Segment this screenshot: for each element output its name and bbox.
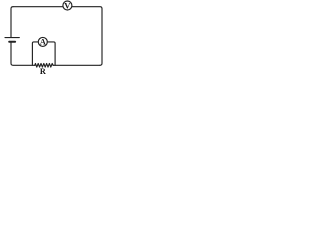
voltmeter V1 circle (63, 1, 72, 10)
battery B1 short plate (9, 41, 15, 43)
wire bottom right segment (54, 64, 100, 66)
svg-text:A: A (40, 38, 46, 47)
wire right side (100, 9, 102, 66)
wire bottom left segment (11, 42, 34, 65)
ammeter loop left branch wire (32, 42, 38, 65)
battery B1 long plate (5, 37, 19, 39)
ammeter A1 circle (38, 37, 47, 46)
wire left side upper (battery top plate to top-left corner) (11, 7, 13, 38)
svg-text:R: R (40, 67, 46, 76)
svg-text:V: V (64, 0, 71, 10)
ammeter loop right branch wire (47, 42, 55, 65)
wire top (13, 7, 102, 9)
resistor R zigzag (34, 64, 53, 68)
